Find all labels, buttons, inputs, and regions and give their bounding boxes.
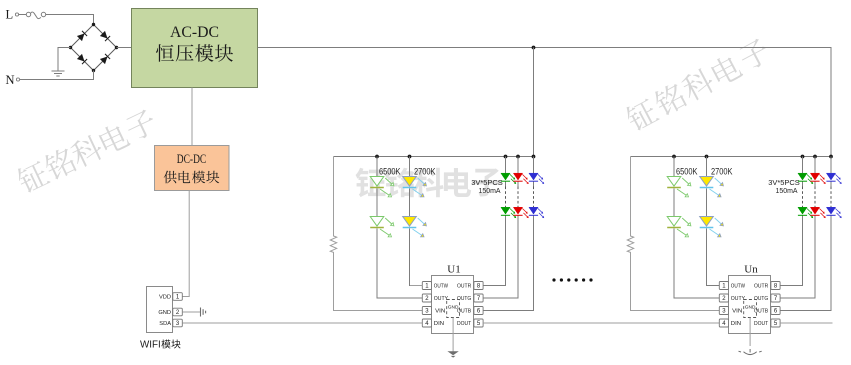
wire Un DOUT stub — [780, 322, 832, 324]
bus junction — [408, 155, 412, 159]
wire blue LED column — [533, 157, 535, 187]
ellipsis dots — [552, 278, 592, 281]
LED 6500K top — [370, 177, 384, 187]
wire DC-DC to WIFI VDD — [183, 191, 190, 297]
wire red LED column — [517, 157, 519, 187]
wire green LED column — [505, 157, 507, 187]
svg-text:OUTG: OUTG — [754, 296, 769, 302]
LED 2700K top — [700, 177, 714, 187]
pin 3 VIN — [422, 307, 431, 315]
LED green bottom — [798, 207, 807, 214]
pin 1 OUTW — [719, 282, 728, 290]
GND net of Un — [744, 300, 757, 318]
diode D2 — [100, 31, 108, 39]
svg-text:6500K: 6500K — [676, 167, 698, 177]
wire AC-DC to DC-DC — [191, 88, 193, 146]
pin 5 DOUT — [771, 319, 780, 327]
wire SDA to U1 DIN — [183, 322, 423, 324]
wire bridge to AC-DC — [117, 47, 132, 49]
wire L to fuse — [19, 14, 27, 16]
pin 7 OUTG — [771, 294, 780, 302]
bus junction — [829, 155, 833, 159]
svg-text:DIN: DIN — [731, 321, 741, 327]
wire fuse to bridge top — [46, 15, 94, 25]
LED blue top — [529, 173, 538, 180]
svg-text:GND: GND — [158, 310, 171, 316]
pin 8 OUTR — [771, 282, 780, 290]
wire bridge left to ground — [58, 48, 71, 71]
pin 6 OUTB — [474, 307, 483, 315]
svg-text:150mA: 150mA — [479, 186, 502, 195]
pin 4 DIN — [719, 319, 728, 327]
wire Un GND stem — [749, 318, 751, 347]
watermark top-right 钲铭科电子 — [623, 36, 773, 133]
LED green top — [501, 173, 510, 180]
pin 7 OUTG — [474, 294, 483, 302]
svg-text:6500K: 6500K — [379, 167, 401, 177]
LED red top — [513, 173, 522, 180]
bridge node right — [115, 46, 118, 49]
ground (bridge) — [52, 71, 65, 76]
LED blue bottom — [826, 207, 835, 214]
LED red top — [810, 173, 819, 180]
LED bus module n — [631, 156, 832, 158]
svg-text:OUTR: OUTR — [754, 284, 768, 290]
LED 6500K top — [667, 177, 681, 187]
ground (WIFI) — [201, 308, 206, 317]
wire bus drop module1 — [533, 48, 535, 157]
pin 2 OUTY — [422, 294, 431, 302]
svg-text:N: N — [6, 73, 15, 87]
svg-text:GND: GND — [745, 304, 756, 310]
ground (U1) — [447, 351, 458, 355]
svg-text:OUTW: OUTW — [434, 284, 449, 290]
bus junction — [801, 155, 805, 159]
wire red LED column — [814, 157, 816, 187]
pin 5 DOUT — [474, 319, 483, 327]
svg-text:VIN: VIN — [435, 309, 445, 315]
svg-text:DIN: DIN — [434, 321, 444, 327]
watermark center 钲铭科电子 — [356, 168, 386, 197]
wire 6500K column — [674, 157, 719, 299]
svg-text:AC-DC: AC-DC — [170, 23, 219, 41]
LED green top — [798, 173, 807, 180]
bus junction — [813, 155, 817, 159]
svg-text:L: L — [6, 7, 14, 21]
pin 2 OUTY — [719, 294, 728, 302]
bus junction — [516, 155, 520, 159]
diode D4 — [100, 57, 108, 65]
LED blue top — [826, 173, 835, 180]
svg-text:OUTR: OUTR — [457, 284, 471, 290]
diode D3 — [77, 54, 85, 62]
wire 2700K column — [707, 157, 720, 286]
LED 2700K top — [403, 177, 417, 187]
bus junction — [504, 155, 508, 159]
svg-text:DOUT: DOUT — [457, 321, 472, 327]
AC-DC constant voltage module — [132, 9, 258, 88]
GND net of U1 — [447, 300, 460, 318]
LED bus module 1 — [334, 156, 534, 158]
ground (Un) — [739, 349, 762, 355]
wire U1 DOUT to Un DIN — [483, 322, 719, 324]
LED 2700K bottom — [403, 217, 417, 227]
pin 3 VIN — [719, 307, 728, 315]
svg-text:WIFI: WIFI — [140, 340, 161, 351]
svg-text:SDA: SDA — [159, 321, 171, 327]
pin 1 OUTW — [422, 282, 431, 290]
watermark left 钲铭科电子 — [14, 107, 159, 195]
bus junction — [672, 155, 676, 159]
pin 4 DIN — [422, 319, 431, 327]
svg-text:DC-DC: DC-DC — [177, 152, 207, 166]
svg-text:DOUT: DOUT — [754, 321, 769, 327]
LED red bottom — [513, 207, 522, 214]
svg-text:2700K: 2700K — [711, 167, 733, 177]
svg-text:VDD: VDD — [159, 295, 171, 301]
main V+ bus — [258, 48, 832, 157]
LED 6500K bottom — [667, 217, 681, 227]
wire 2700K column — [410, 157, 423, 286]
LED 6500K bottom — [370, 217, 384, 227]
bridge node bottom — [92, 69, 95, 72]
bus junction — [532, 155, 536, 159]
svg-text:OUTW: OUTW — [731, 284, 746, 290]
svg-text:OUTY: OUTY — [731, 296, 745, 302]
LED blue bottom — [529, 207, 538, 214]
wire 6500K column — [377, 157, 422, 299]
resistor R1 — [330, 157, 422, 311]
svg-text:150mA: 150mA — [776, 186, 799, 195]
wire U1 GND stem — [452, 318, 454, 352]
LED 2700K bottom — [700, 217, 714, 227]
wire WIFI GND — [183, 311, 201, 313]
diode D1 — [77, 34, 85, 42]
svg-text:U1: U1 — [447, 264, 460, 276]
svg-text:GND: GND — [448, 304, 459, 310]
junction main bus module1 — [532, 46, 536, 50]
wire blue LED column — [830, 157, 832, 187]
svg-text:VIN: VIN — [732, 309, 742, 315]
LED green bottom — [501, 207, 510, 214]
svg-text:Un: Un — [744, 264, 758, 276]
pin 6 OUTB — [771, 307, 780, 315]
svg-text:OUTY: OUTY — [434, 296, 448, 302]
bus junction — [705, 155, 709, 159]
resistor Rn — [627, 157, 719, 311]
LED red bottom — [810, 207, 819, 214]
bus junction — [375, 155, 379, 159]
svg-text:OUTG: OUTG — [457, 296, 472, 302]
wire green LED column — [802, 157, 804, 187]
bridge node left — [69, 46, 72, 49]
DC-DC power module — [155, 146, 230, 191]
fuse F1 — [26, 12, 45, 19]
svg-text:2700K: 2700K — [414, 167, 436, 177]
WIFI module box — [147, 287, 173, 333]
wire U1 pin1 to 2700K — [410, 285, 422, 287]
pin 8 OUTR — [474, 282, 483, 290]
bridge node top — [92, 23, 95, 26]
bridge rectifier arms — [71, 25, 117, 71]
wire N to bridge bottom — [20, 71, 94, 80]
